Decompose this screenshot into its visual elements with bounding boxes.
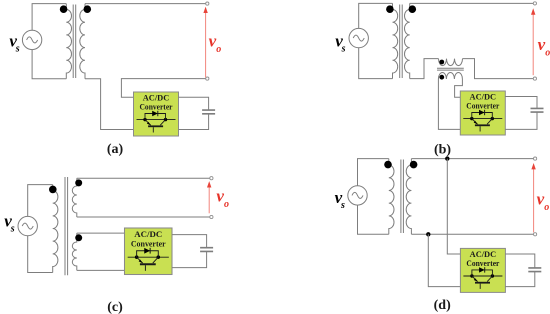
wire source top to primary (b) <box>359 3 393 28</box>
aux transformer T3 secondary winding (b) <box>438 73 462 80</box>
aux transformer T3 core (b) <box>437 68 464 70</box>
capacitor C3 plates (c) <box>200 248 213 252</box>
output terminal top (d) <box>534 157 537 160</box>
wire converter output top to capacitor (b) <box>505 97 537 109</box>
AC/DC converter U3 (c) <box>125 228 173 274</box>
AC source Vs circle (b) <box>349 28 368 47</box>
svg-text:s: s <box>15 43 20 54</box>
aux transformer T3 primary winding (b) <box>439 59 463 66</box>
wire top rail junction to converter input (d) <box>447 159 460 254</box>
transformer T1 primary polarity dot (a) <box>60 5 68 13</box>
output voltage arrowhead (b) <box>531 8 535 14</box>
wire aux primary to output bottom terminal (b) <box>463 59 534 79</box>
wire source top to primary (d) <box>358 159 389 186</box>
transformer T2 secondary winding (b) <box>405 3 410 78</box>
transformer T1 primary winding (a) <box>66 4 71 79</box>
AC/DC converter U1 (a) <box>134 92 179 136</box>
wire source top to primary (c) <box>28 185 53 217</box>
AC source sine symbol (a) <box>27 37 38 43</box>
wire capacitor to converter bottom (b) <box>505 112 537 129</box>
wire secondary 2 top to converter input (c) <box>77 232 125 234</box>
wire converter output top to capacitor (a) <box>179 97 209 110</box>
wire capacitor to converter bottom (d) <box>505 272 534 287</box>
output voltage arrow line (c) <box>208 186 210 213</box>
transformer T1 secondary winding (a) <box>80 4 85 79</box>
wire primary bottom to source (d) <box>358 205 389 234</box>
svg-text:o: o <box>545 47 550 58</box>
wire primary bottom to source (a) <box>32 50 66 79</box>
svg-text:(b): (b) <box>434 143 451 158</box>
transformer T5 secondary winding (d) <box>406 159 411 235</box>
output terminal top (c) <box>210 177 213 180</box>
output terminal bottom (a) <box>206 77 209 80</box>
output terminal bottom (b) <box>533 77 536 80</box>
wire secondary 2 bottom to converter input (c) <box>77 269 125 271</box>
wire primary bottom to source (c) <box>28 236 53 273</box>
wire capacitor to converter bottom (a) <box>179 114 209 130</box>
wire secondary 1 bottom to output terminal (c) <box>77 216 210 218</box>
wire secondary top to output terminal (a) <box>85 3 206 5</box>
transformer T5 secondary polarity dot (d) <box>410 161 418 169</box>
wire source top to primary (a) <box>32 4 66 31</box>
svg-text:(c): (c) <box>107 300 123 314</box>
capacitor C4 plates (d) <box>528 268 541 272</box>
wire secondary bottom to aux transformer (b) <box>410 59 439 79</box>
aux transformer T3 secondary polarity dot (b) <box>439 75 444 80</box>
capacitor C2 plates (b) <box>531 108 544 112</box>
AC source sine symbol (c) <box>22 223 33 229</box>
transformer T4 core (c) <box>65 177 68 275</box>
transformer T5 core (d) <box>401 160 404 234</box>
output voltage arrow line (b) <box>532 13 534 75</box>
transformer T4 secondary 1 polarity dot (c) <box>75 179 82 186</box>
wire secondary bottom to converter input (a) <box>85 79 134 130</box>
AC source Vs circle (d) <box>348 186 367 205</box>
AC source sine symbol (d) <box>352 192 363 198</box>
wire converter output top to capacitor (d) <box>505 254 534 268</box>
output voltage arrowhead (d) <box>531 163 535 169</box>
svg-text:s: s <box>10 224 15 235</box>
transformer T2 primary winding (b) <box>393 3 398 78</box>
transformer T2 primary polarity dot (b) <box>386 5 394 13</box>
wire secondary 1 top to output terminal (c) <box>77 177 210 179</box>
capacitor C1 plates (a) <box>202 110 215 114</box>
transformer T2 core (b) <box>400 5 403 79</box>
svg-text:(a): (a) <box>107 142 124 157</box>
wire aux secondary right to converter top input (b) <box>455 79 463 97</box>
transformer T4 secondary 2 polarity dot (c) <box>75 234 82 241</box>
junction node bottom rail (d) <box>426 232 430 236</box>
svg-text:(d): (d) <box>434 298 451 313</box>
wire converter output top to capacitor (c) <box>172 235 207 248</box>
transformer T4 primary winding (c) <box>53 185 58 273</box>
AC/DC converter U2 (b) <box>460 91 505 135</box>
transformer T1 core (a) <box>73 5 76 79</box>
wire output bottom terminal to converter input (a) <box>121 79 206 98</box>
wire secondary top to output terminal (b) <box>410 2 534 4</box>
svg-text:o: o <box>224 199 229 210</box>
transformer T1 secondary polarity dot (a) <box>84 5 92 13</box>
svg-text:s: s <box>340 200 345 211</box>
output voltage arrow line (d) <box>533 168 535 232</box>
transformer T4 primary polarity dot (c) <box>49 186 57 194</box>
transformer T4 secondary winding 2 (c) <box>72 233 77 270</box>
output terminal bottom (c) <box>210 215 213 218</box>
transformer T4 secondary winding 1 (c) <box>72 178 77 217</box>
svg-text:o: o <box>544 202 549 213</box>
AC source Vs circle (a) <box>22 30 41 49</box>
transformer T5 primary winding (d) <box>389 159 394 235</box>
output voltage arrow line (a) <box>205 12 207 78</box>
svg-text:o: o <box>216 44 221 55</box>
svg-text:s: s <box>341 43 346 54</box>
transformer T2 secondary polarity dot (b) <box>409 5 417 13</box>
junction node top rail (d) <box>445 156 449 160</box>
wire secondary bottom to output terminal (d) <box>411 233 533 235</box>
output voltage arrowhead (c) <box>207 181 211 187</box>
output terminal top (a) <box>206 2 209 5</box>
AC/DC converter U4 (d) <box>460 248 505 292</box>
aux transformer T3 primary polarity dot (b) <box>439 60 444 65</box>
wire primary bottom to source (b) <box>359 48 393 79</box>
AC source Vs circle (c) <box>18 216 37 235</box>
output terminal bottom (d) <box>534 233 537 236</box>
transformer T5 primary polarity dot (d) <box>384 161 392 169</box>
wire secondary top to output terminal (d) <box>411 158 533 160</box>
wire bottom rail junction to converter input (d) <box>428 234 460 286</box>
wire capacitor to converter bottom (c) <box>172 252 207 268</box>
output voltage arrowhead (a) <box>203 7 207 13</box>
output terminal top (b) <box>533 2 536 5</box>
AC source sine symbol (b) <box>353 35 364 41</box>
wire aux secondary left to converter bottom input (b) <box>438 79 460 129</box>
